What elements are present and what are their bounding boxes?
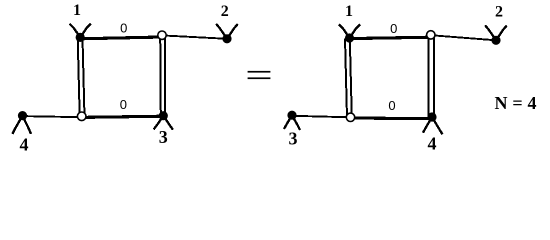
svg-text:2: 2 [495, 4, 503, 21]
legs node 4 (left diagram) [12, 116, 31, 134]
legs node 1 (left diagram) [70, 24, 91, 38]
node TR open circle (right diagram) [427, 31, 435, 39]
left double edge (right diagram) [345, 39, 352, 118]
svg-text:4: 4 [428, 134, 437, 154]
legs node 3 (right diagram) [284, 115, 300, 130]
svg-text:2: 2 [221, 3, 229, 20]
node 3 filled (right diagram) [287, 111, 296, 120]
wire TR to node 2 (right diagram) [431, 35, 496, 40]
svg-text:0: 0 [120, 20, 127, 35]
svg-text:3: 3 [159, 127, 168, 147]
node 3 filled (left diagram) [159, 111, 168, 120]
svg-text:0: 0 [120, 97, 127, 112]
edge top 0 (left diagram, thick) [80, 37, 162, 39]
node 1 filled (left diagram) [76, 33, 85, 42]
node 4 filled (left diagram) [18, 111, 27, 120]
svg-text:0: 0 [388, 98, 395, 113]
wire node 3 to BL (right diagram) [292, 116, 351, 118]
node 2 filled (right diagram) [491, 36, 500, 45]
svg-text:3: 3 [289, 129, 298, 149]
node 1 filled (right diagram) [345, 33, 354, 42]
svg-text:N = 4: N = 4 [495, 93, 537, 113]
legs node 4 (right diagram) [423, 117, 443, 134]
edge bottom 0 (left diagram, thick) [82, 116, 164, 117]
node 4 filled (right diagram) [427, 112, 436, 121]
wire node 4 to BL (left diagram) [23, 116, 82, 117]
svg-text:0: 0 [390, 21, 397, 36]
node BL open circle (left diagram) [77, 112, 86, 121]
node 2 filled (left diagram) [222, 34, 231, 43]
node BL open circle (right diagram) [346, 113, 354, 121]
legs node 2 (right diagram) [485, 25, 507, 40]
left double edge (left diagram) [78, 38, 85, 117]
wire TR to node 2 (left diagram) [162, 35, 227, 38]
svg-text:1: 1 [345, 3, 353, 20]
edge top 0 (right diagram, thick) [350, 37, 431, 38]
legs node 1 (right diagram) [339, 24, 360, 38]
svg-text:4: 4 [20, 135, 29, 154]
legs node 3 (left diagram) [154, 116, 173, 130]
edge bottom 0 (right diagram, thick) [351, 116, 433, 120]
right double edge (right diagram) [429, 35, 434, 117]
right double edge (left diagram) [160, 36, 165, 116]
equals sign between diagrams [248, 71, 271, 79]
node TR open circle (left diagram) [158, 31, 166, 39]
legs node 2 (left diagram) [216, 24, 238, 39]
svg-text:1: 1 [73, 2, 81, 19]
